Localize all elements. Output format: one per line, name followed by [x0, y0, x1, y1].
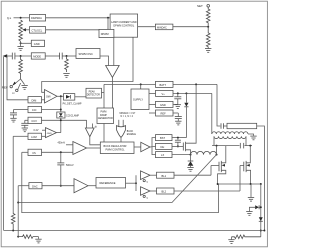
ground dim select [21, 79, 28, 89]
pin box LCM [13, 133, 45, 139]
pin box MINDAC [138, 24, 210, 30]
ground R2 [63, 74, 69, 78]
transformer T1 secondary [212, 132, 254, 136]
switch wiper to REF [2, 79, 21, 95]
terminal SET [197, 4, 210, 8]
wire main supply bus [104, 83, 217, 142]
svg-text:CTL/SCL: CTL/SCL [32, 28, 43, 32]
svg-text:SUPPLY: SUPPLY [133, 97, 143, 101]
inductor buck [191, 151, 218, 155]
diode clamp low [246, 205, 262, 215]
svg-text:MINDAC = V17: MINDAC = V17 [120, 112, 136, 115]
svg-text:Q: Q [146, 197, 148, 199]
wire primary node [212, 145, 252, 155]
wire gate feedback L1 [18, 155, 216, 203]
pin box GND2 [156, 101, 178, 107]
resistor divider left [17, 235, 36, 239]
ground pot [17, 47, 23, 51]
transistor bridge Q1 [211, 146, 226, 184]
svg-text:REFERENCE: REFERENCE [100, 181, 116, 185]
arrow lamp sense left [3, 54, 12, 58]
pin box DAC [18, 183, 74, 189]
ground sense left [35, 237, 41, 243]
svg-text:CCI/CLAMP: CCI/CLAMP [66, 114, 79, 117]
wire supply to GND [149, 103, 156, 105]
ground V+ cap [175, 105, 181, 109]
transistor buck NMOS [183, 84, 196, 154]
svg-text:CCV: CCV [31, 119, 37, 123]
node LCM divider [12, 230, 14, 232]
svg-text:GND: GND [34, 42, 40, 46]
svg-text:dt: dt [95, 126, 97, 129]
driver BL1 [141, 171, 157, 184]
svg-text:PK_DET_CLAMP: PK_DET_CLAMP [63, 103, 82, 106]
op-amp reference buffer [74, 179, 96, 193]
block BUCK REGULATOR PWM CONTROL [100, 142, 134, 154]
svg-text:DETECTOR: DETECTOR [87, 94, 100, 97]
svg-text:DIM/SDA: DIM/SDA [31, 16, 42, 20]
resistor LCM bottom [11, 213, 15, 231]
wire DPWM to modulator [113, 38, 115, 66]
svg-text:DPWM CONTROL: DPWM CONTROL [113, 24, 134, 27]
op-amp bridge modulator [106, 66, 120, 78]
wire feedback to GMI [42, 37, 133, 92]
wire SPWM to modulator [100, 56, 109, 66]
svg-text:DAC: DAC [32, 184, 38, 188]
block LAMP CURRENT AND DPWM CONTROL [110, 14, 138, 37]
wire lamp sense return [4, 230, 266, 232]
comparator PWM [58, 142, 101, 155]
driver buck DH [134, 142, 156, 151]
wire CS to bridge bus [22, 152, 219, 212]
block SPWM OSC [76, 49, 100, 59]
svg-text:Q: Q [146, 182, 148, 184]
svg-text:LAMP CURRENT AND: LAMP CURRENT AND [111, 21, 137, 24]
capacitor C1 [12, 53, 31, 60]
pin box DH [156, 143, 184, 149]
capacitor CCV [21, 120, 28, 131]
wire BL2 to Q2 gate [239, 166, 241, 192]
gate BUCK ENABLE [117, 120, 137, 142]
op-amp GMV [34, 128, 61, 138]
svg-text:SPWM OSC: SPWM OSC [79, 52, 94, 56]
svg-text:0.4V: 0.4V [34, 129, 39, 132]
diode bootstrap [184, 93, 188, 137]
ground R5 [205, 49, 211, 53]
block REFERENCE [96, 178, 126, 189]
svg-text:N = 1, N = 4: N = 1, N = 4 [121, 116, 134, 118]
transformer T1 primary [214, 136, 246, 145]
svg-text:450mV: 450mV [58, 142, 66, 145]
label MINDAC equation [120, 112, 136, 118]
resistor R4 upper [206, 7, 210, 27]
wire left bus lamp sense [3, 57, 5, 231]
differentiator dt [85, 120, 100, 145]
svg-text:LX: LX [161, 153, 164, 157]
svg-text:PC: PC [12, 93, 15, 95]
wire DAC feedback vertical [17, 186, 19, 237]
capacitor REF [175, 113, 182, 125]
svg-text:DIM: DIM [32, 98, 37, 102]
svg-text:CS: CS [32, 151, 36, 155]
svg-text:ENABLE: ENABLE [127, 133, 137, 136]
node GMI out [57, 95, 64, 132]
svg-text:SET: SET [197, 4, 203, 8]
wire SCL to control box [46, 29, 111, 31]
svg-text:DPWM: DPWM [101, 33, 109, 36]
wire driver to BST LX [152, 138, 156, 155]
svg-text:DH: DH [161, 145, 165, 149]
svg-text:V+: V+ [162, 92, 166, 96]
wire SDA to control box [46, 17, 111, 19]
block SUPPLY [131, 84, 149, 109]
capacitor resonant [240, 143, 243, 149]
diode PK_DET_CLAMP [63, 94, 86, 106]
pin box DIM [28, 97, 42, 103]
wire supply to REF [149, 112, 156, 114]
pin box MODE [31, 53, 45, 59]
capacitor CCI [10, 110, 17, 123]
wire reference out [126, 175, 138, 191]
pin box LX [156, 152, 192, 158]
lamp CCFL [227, 123, 264, 230]
capacitor V+ bypass [174, 93, 181, 104]
wire LCM to bottom resistor [12, 136, 14, 212]
wire bridge source bus [217, 183, 262, 237]
wire modulator out [111, 78, 113, 109]
svg-text:V+: V+ [7, 16, 11, 20]
wire supply to V+ [149, 92, 156, 94]
pin box BL2 [157, 188, 241, 194]
resistor R5 lower [206, 27, 210, 49]
capacitor C2 [45, 53, 76, 60]
offset 500mV [57, 152, 74, 186]
svg-text:BATT: BATT [160, 83, 167, 87]
block PWM RAMP GENERATOR [97, 108, 114, 124]
svg-text:MODE: MODE [33, 54, 41, 58]
svg-text:MINDAC: MINDAC [157, 26, 167, 29]
vertical SDA/SCL to DPWM [107, 18, 109, 30]
svg-text:BST: BST [160, 136, 165, 140]
pin box CTL/SCL [26, 27, 46, 33]
wire BL1 to Q1 gate [210, 166, 212, 176]
potentiometer R1 [19, 20, 26, 41]
op-amp GMI [42, 90, 58, 104]
driver BL2 [141, 187, 157, 200]
svg-text:BL1: BL1 [162, 174, 167, 178]
svg-text:PWM CONTROL: PWM CONTROL [106, 149, 126, 152]
block DPWM [99, 29, 114, 37]
transistor bridge Q2 [240, 146, 251, 184]
svg-text:GMV: GMV [47, 133, 53, 135]
capacitor bootstrap [175, 138, 181, 148]
svg-text:GENERATOR: GENERATOR [98, 117, 113, 120]
node V+ [7, 16, 30, 20]
ground sense right [228, 237, 234, 244]
pin box CS [22, 149, 73, 155]
svg-text:GMI: GMI [46, 96, 51, 98]
pin box V+ [156, 90, 212, 96]
svg-text:GND: GND [160, 103, 166, 107]
block PEAK DETECTOR [86, 88, 104, 98]
wire V+ to transformer [211, 93, 213, 134]
pin box GND [31, 40, 44, 46]
diode rectifier [259, 217, 263, 231]
node pot bottom [20, 41, 32, 46]
diode freewheel [187, 155, 193, 172]
svg-text:LCM: LCM [31, 135, 36, 139]
capacitor lamp ballast [221, 123, 227, 129]
pin box BL1 [157, 172, 212, 178]
svg-text:CCI: CCI [32, 108, 37, 112]
wire DIM bus [7, 56, 28, 100]
svg-text:BL2: BL2 [162, 190, 167, 194]
pin box CCI [14, 106, 62, 112]
svg-text:REF: REF [161, 112, 167, 116]
pin box REF [156, 110, 179, 116]
svg-text:BUCK REGULATOR: BUCK REGULATOR [104, 145, 127, 148]
ground secondary [250, 136, 256, 140]
resistor ballast sense right [232, 235, 261, 239]
pin box BATT [156, 81, 174, 87]
svg-text:500mV: 500mV [66, 164, 74, 167]
pin box CCV [25, 117, 87, 123]
resistor R2 [65, 56, 69, 72]
ground bridge [248, 184, 254, 201]
diode CCI/CLAMP [57, 112, 80, 118]
resistor R3 dim divider [19, 56, 23, 79]
pin box BST [156, 135, 187, 141]
wire batt to lamp cap [217, 84, 220, 126]
svg-text:BUCK: BUCK [127, 131, 134, 133]
pin box DIM/SDA [30, 15, 46, 22]
